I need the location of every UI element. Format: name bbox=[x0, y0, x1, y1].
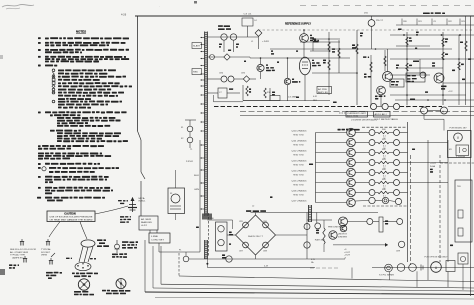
svg-text:L1: L1 bbox=[251, 41, 254, 43]
svg-text:CR6: CR6 bbox=[263, 221, 267, 223]
svg-text:Q17 2N3055: Q17 2N3055 bbox=[292, 200, 307, 202]
svg-text:0.1: 0.1 bbox=[383, 186, 386, 188]
svg-text:Q14 2N3055: Q14 2N3055 bbox=[292, 170, 307, 172]
svg-text:C4: C4 bbox=[254, 20, 257, 22]
svg-text:0.1: 0.1 bbox=[383, 146, 386, 148]
svg-text:R10: R10 bbox=[267, 92, 272, 94]
svg-text:HEAT SINK: HEAT SINK bbox=[293, 194, 305, 197]
svg-text:-OUT: -OUT bbox=[344, 255, 351, 257]
svg-text:R21: R21 bbox=[418, 21, 422, 23]
svg-text:CR8: CR8 bbox=[263, 251, 267, 253]
svg-text:R43: R43 bbox=[382, 159, 386, 161]
svg-text:4 TERM: 4 TERM bbox=[456, 157, 465, 159]
svg-text:R44: R44 bbox=[382, 169, 386, 171]
svg-text:NOTES: NOTES bbox=[76, 30, 86, 34]
svg-text:T2 FIL XFMR: T2 FIL XFMR bbox=[379, 275, 395, 277]
svg-text:VIEW: VIEW bbox=[41, 255, 47, 257]
svg-text:TYPICAL TYPE: TYPICAL TYPE bbox=[10, 254, 26, 257]
svg-text:INSUL: INSUL bbox=[139, 201, 146, 203]
svg-text:FOR OPTION S10 ONLY: FOR OPTION S10 ONLY bbox=[425, 257, 449, 259]
svg-text:M1: M1 bbox=[449, 149, 452, 151]
svg-text:TB1: TB1 bbox=[457, 186, 462, 188]
svg-text:+S: +S bbox=[344, 249, 347, 251]
svg-text:C9: C9 bbox=[433, 21, 435, 23]
svg-text:PRE DRIVER: PRE DRIVER bbox=[328, 227, 343, 229]
svg-text:HEAT SINK: HEAT SINK bbox=[293, 154, 305, 157]
svg-text:R23: R23 bbox=[461, 21, 465, 23]
svg-text:10A: 10A bbox=[430, 165, 436, 168]
svg-text:L2: L2 bbox=[252, 206, 255, 208]
svg-text:F2: F2 bbox=[181, 138, 184, 140]
svg-text:Q12 2N3055: Q12 2N3055 bbox=[292, 150, 307, 152]
svg-text:DS1: DS1 bbox=[364, 13, 369, 15]
svg-text:ADDL ADJ: ADDL ADJ bbox=[375, 113, 387, 116]
svg-text:AMPL BD: AMPL BD bbox=[318, 91, 329, 94]
svg-text:4-22: 4-22 bbox=[141, 225, 147, 227]
svg-text:CR5: CR5 bbox=[241, 73, 246, 75]
svg-text:0.1: 0.1 bbox=[383, 156, 386, 158]
svg-text:F1: F1 bbox=[181, 127, 184, 129]
svg-text:HEAT SINK: HEAT SINK bbox=[293, 184, 305, 187]
svg-text:CAUTION: CAUTION bbox=[64, 212, 76, 215]
svg-text:HEAT SINK: HEAT SINK bbox=[293, 144, 305, 147]
svg-text:USE OF EXCESS SOLDER PRESSURE: USE OF EXCESS SOLDER PRESSURE bbox=[50, 216, 94, 218]
svg-text:CR7: CR7 bbox=[239, 251, 243, 253]
svg-text:F1: F1 bbox=[179, 250, 182, 252]
svg-text:+24V: +24V bbox=[262, 41, 270, 43]
svg-text:C10: C10 bbox=[210, 218, 215, 220]
svg-text:VOLT METER TABLE: VOLT METER TABLE bbox=[374, 118, 399, 121]
svg-text:MAIN BD: MAIN BD bbox=[141, 221, 153, 224]
svg-text:R20: R20 bbox=[403, 21, 407, 23]
svg-text:Q11 2N3055: Q11 2N3055 bbox=[292, 140, 307, 142]
svg-text:115V: 115V bbox=[186, 161, 194, 163]
svg-text:SLATE: SLATE bbox=[193, 45, 201, 48]
svg-text:OR HEAT MAY DAMAGE THE BOARD: OR HEAT MAY DAMAGE THE BOARD bbox=[50, 218, 94, 221]
svg-text:4-32: 4-32 bbox=[313, 96, 317, 98]
svg-text:0.1: 0.1 bbox=[383, 136, 386, 138]
svg-text:LAMPS ETC: LAMPS ETC bbox=[12, 256, 25, 259]
svg-text:+OUT: +OUT bbox=[344, 252, 351, 254]
svg-text:ADJ. R36: ADJ. R36 bbox=[347, 114, 358, 117]
svg-text:HEAT SINK: HEAT SINK bbox=[293, 174, 305, 177]
svg-text:2N3772: 2N3772 bbox=[338, 234, 347, 236]
svg-text:4-26: 4-26 bbox=[121, 13, 127, 17]
svg-text:GRN: GRN bbox=[194, 189, 200, 191]
svg-text:T1: T1 bbox=[190, 149, 193, 151]
svg-text:REFERENCE SUPPLY: REFERENCE SUPPLY bbox=[285, 23, 311, 26]
svg-text:Q16 2N3055: Q16 2N3055 bbox=[292, 190, 307, 192]
svg-text:CR9: CR9 bbox=[396, 251, 401, 253]
svg-text:HEAT SINK: HEAT SINK bbox=[293, 134, 305, 137]
svg-text:Q15 2N3055: Q15 2N3055 bbox=[292, 180, 307, 182]
svg-text:MAIN RECT: MAIN RECT bbox=[248, 235, 263, 238]
svg-text:R45: R45 bbox=[382, 179, 386, 181]
svg-text:RED: RED bbox=[193, 72, 199, 74]
svg-text:F3: F3 bbox=[170, 193, 172, 195]
svg-text:LINE: LINE bbox=[151, 236, 159, 238]
svg-text:A2 PRE: A2 PRE bbox=[318, 88, 328, 91]
svg-text:ALL OTHER VIEW: ALL OTHER VIEW bbox=[10, 251, 28, 254]
svg-text:+OUT: +OUT bbox=[430, 163, 437, 165]
svg-text:Q13 2N3055: Q13 2N3055 bbox=[292, 160, 307, 162]
svg-text:C3 .01: C3 .01 bbox=[244, 14, 253, 16]
svg-text:V: V bbox=[457, 136, 460, 140]
svg-text:A: A bbox=[435, 266, 438, 270]
svg-text:R42: R42 bbox=[382, 149, 386, 151]
svg-text:SEE FIG 4-2 OR 4-3 FOR: SEE FIG 4-2 OR 4-3 FOR bbox=[10, 249, 37, 251]
svg-text:CR5: CR5 bbox=[239, 221, 243, 223]
svg-text:HEAT SINK: HEAT SINK bbox=[293, 164, 305, 167]
svg-text:R41: R41 bbox=[382, 139, 386, 141]
svg-text:SOCKET: SOCKET bbox=[41, 252, 51, 254]
svg-text:C7: C7 bbox=[219, 92, 222, 94]
svg-text:BLK: BLK bbox=[194, 175, 200, 177]
svg-text:R22: R22 bbox=[448, 21, 452, 23]
svg-text:DRIVER: DRIVER bbox=[338, 236, 348, 238]
svg-text:CR4: CR4 bbox=[219, 73, 224, 75]
svg-text:CORD SET: CORD SET bbox=[151, 239, 165, 241]
svg-text:0.1: 0.1 bbox=[383, 166, 386, 168]
svg-text:5A: 5A bbox=[311, 261, 314, 264]
svg-text:Q10 2N3055: Q10 2N3055 bbox=[292, 130, 307, 132]
svg-text:A1 SER: A1 SER bbox=[141, 218, 152, 221]
svg-text:TYPICAL: TYPICAL bbox=[41, 248, 52, 251]
svg-text:0.1: 0.1 bbox=[383, 176, 386, 178]
svg-text:PILOT: PILOT bbox=[376, 20, 384, 22]
svg-text:R40: R40 bbox=[382, 129, 386, 131]
svg-text:6.3V: 6.3V bbox=[311, 259, 316, 261]
svg-text:+12V: +12V bbox=[448, 91, 453, 93]
svg-text:R46: R46 bbox=[382, 189, 386, 191]
svg-text:.: . bbox=[159, 4, 160, 8]
svg-text:FOR MODEL 28V: FOR MODEL 28V bbox=[450, 128, 468, 130]
